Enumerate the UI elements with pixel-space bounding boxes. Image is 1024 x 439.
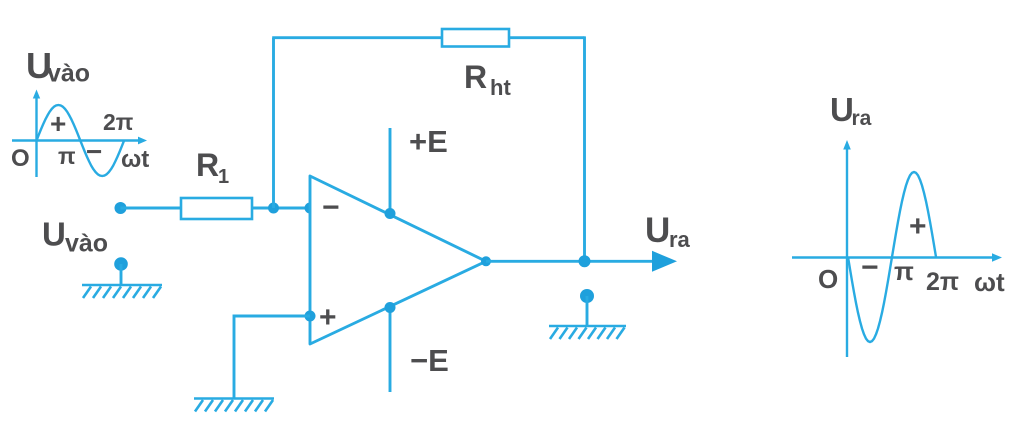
svg-text:O: O	[11, 145, 30, 172]
svg-text:U: U	[42, 216, 66, 253]
label R1	[196, 147, 229, 188]
input waveform U_vao label	[26, 45, 90, 88]
input waveform vertical axis	[35, 96, 37, 177]
output sine wave	[848, 172, 936, 342]
svg-text:−: −	[86, 136, 102, 167]
svg-text:vào: vào	[47, 60, 90, 88]
svg-text:U: U	[645, 211, 670, 250]
output arrowhead	[652, 251, 677, 272]
svg-text:+: +	[50, 108, 66, 139]
node output/feedback junction	[579, 255, 591, 267]
output waveform vertical axis	[846, 147, 848, 357]
svg-text:−: −	[861, 251, 879, 284]
output waveform vertical axis arrowhead	[843, 140, 851, 150]
+E supply rail	[389, 128, 392, 213]
lower source terminal node	[114, 257, 128, 271]
ground (non-inverting input)	[194, 399, 274, 412]
resistor R1 body	[181, 198, 252, 219]
input waveform vertical axis arrowhead	[33, 90, 40, 99]
node op-amp output apex	[481, 256, 491, 266]
svg-text:−E: −E	[410, 343, 449, 378]
svg-text:2π: 2π	[926, 268, 959, 296]
svg-text:+E: +E	[409, 124, 448, 159]
input waveform horizontal axis	[12, 139, 139, 141]
label Rht	[464, 59, 511, 100]
svg-text:R: R	[464, 59, 487, 95]
lower U_vao label	[42, 216, 108, 258]
feedback wire top right segment	[509, 36, 585, 39]
wire non-inverting input to ground	[234, 316, 310, 399]
svg-text:+: +	[909, 210, 927, 243]
node junction feedback/input	[268, 203, 279, 214]
svg-text:ωt: ωt	[974, 267, 1005, 297]
-E supply rail	[389, 308, 392, 392]
wire node to ground (input side)	[120, 264, 123, 285]
svg-text:ωt: ωt	[121, 146, 149, 173]
svg-text:−: −	[322, 191, 340, 224]
source terminal node (input)	[115, 202, 127, 214]
input waveform horizontal axis arrowhead	[138, 137, 147, 145]
output waveform horizontal axis	[792, 256, 994, 258]
svg-text:O: O	[818, 264, 838, 294]
svg-text:1: 1	[218, 166, 229, 188]
svg-text:π: π	[58, 143, 76, 169]
svg-text:U: U	[830, 91, 854, 128]
feedback wire top left segment	[272, 36, 442, 39]
label U_ra (output wire)	[645, 211, 691, 252]
node non-inverting input	[305, 311, 316, 322]
wire R1 to inverting input	[252, 207, 310, 210]
svg-text:2π: 2π	[103, 109, 133, 135]
svg-text:ht: ht	[490, 75, 511, 100]
node inverting input	[305, 203, 316, 214]
svg-text:+: +	[319, 301, 337, 334]
wire input node to R1	[121, 207, 182, 210]
svg-text:π: π	[894, 256, 914, 286]
output waveform horizontal axis arrowhead	[992, 253, 1002, 261]
node +E on triangle	[385, 208, 396, 219]
wire output ground node to ground	[586, 296, 589, 326]
svg-text:R: R	[196, 147, 219, 183]
node -E on triangle	[385, 302, 396, 313]
svg-text:ra: ra	[852, 107, 872, 130]
resistor Rht body	[442, 29, 509, 47]
op-amp U1 triangle	[310, 176, 486, 344]
ground (output side)	[549, 326, 626, 339]
svg-text:ra: ra	[669, 227, 691, 252]
feedback wire down to output node	[583, 36, 586, 261]
output ground node	[580, 289, 594, 303]
feedback wire up from input junction	[272, 38, 275, 208]
ground (input side)	[82, 285, 162, 298]
svg-text:vào: vào	[65, 230, 108, 258]
output waveform U_ra label	[830, 91, 872, 130]
output wire	[486, 260, 655, 263]
input sine wave	[37, 105, 125, 176]
